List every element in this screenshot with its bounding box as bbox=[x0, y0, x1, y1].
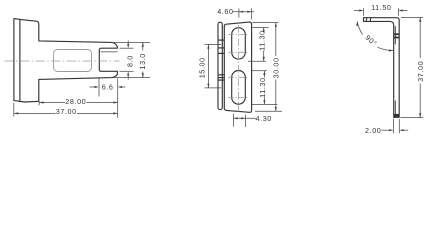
svg-text:8.0: 8.0 bbox=[125, 55, 134, 67]
svg-text:11.30: 11.30 bbox=[258, 30, 267, 50]
svg-text:11.30: 11.30 bbox=[258, 77, 267, 97]
svg-text:11.50: 11.50 bbox=[371, 3, 391, 12]
svg-text:37.00: 37.00 bbox=[56, 107, 77, 116]
svg-text:37.00: 37.00 bbox=[416, 61, 425, 82]
svg-text:15.00: 15.00 bbox=[198, 57, 207, 78]
svg-text:13.0: 13.0 bbox=[138, 53, 147, 69]
svg-text:30.00: 30.00 bbox=[272, 57, 281, 78]
svg-text:4.60: 4.60 bbox=[217, 7, 233, 16]
svg-text:6.6: 6.6 bbox=[102, 83, 114, 92]
svg-text:2.00: 2.00 bbox=[365, 126, 381, 135]
svg-text:4.30: 4.30 bbox=[256, 114, 272, 123]
svg-text:28.00: 28.00 bbox=[65, 97, 86, 106]
